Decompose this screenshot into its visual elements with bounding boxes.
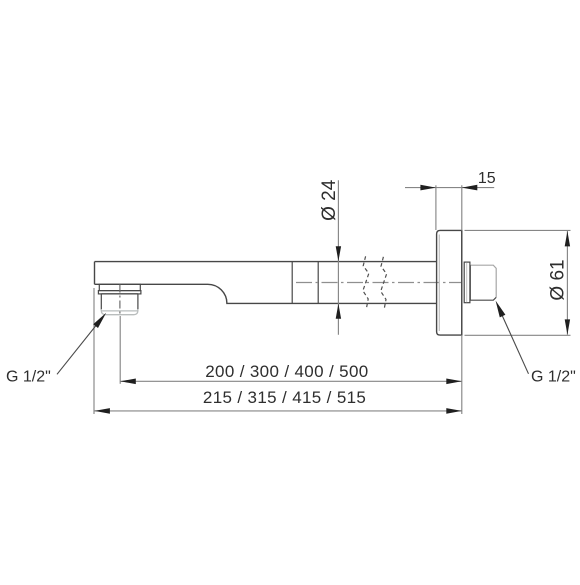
break mark 1 xyxy=(363,256,369,309)
break mark 2 xyxy=(381,257,387,310)
wall plane extension line xyxy=(461,185,463,414)
svg-text:G 1/2": G 1/2" xyxy=(531,369,576,386)
dim 200/300/400/500: dimension line xyxy=(120,380,462,382)
svg-text:215 / 315 / 415 / 515: 215 / 315 / 415 / 515 xyxy=(203,388,366,407)
dim 15: right arrow xyxy=(462,185,478,191)
spout body outline xyxy=(95,262,437,304)
leader left arrowhead xyxy=(93,313,106,328)
spout joint line 1 xyxy=(291,262,293,304)
outlet centerline (dash-dot) xyxy=(119,285,121,317)
wall flange xyxy=(437,230,462,335)
svg-text:200 / 300 / 400 / 500: 200 / 300 / 400 / 500 xyxy=(205,362,368,381)
flange inner highlight line xyxy=(438,235,440,332)
dim O24: dimension line xyxy=(337,180,339,334)
dim O61: dimension line xyxy=(566,231,568,335)
flange right edge over wall line xyxy=(461,230,463,335)
pipe centerline horizontal xyxy=(296,282,462,284)
dim 15: extension line left xyxy=(435,185,437,230)
svg-text:15: 15 xyxy=(478,170,496,187)
svg-text:Ø 24: Ø 24 xyxy=(319,179,340,221)
dim 215/315/415/515: extension line left xyxy=(93,288,95,414)
dim 200 right arrow xyxy=(446,379,462,385)
dim 215 left arrow xyxy=(94,408,110,414)
nipple collar xyxy=(464,262,470,303)
leader right G 1/2 xyxy=(502,314,529,374)
outlet collar band A xyxy=(99,284,140,290)
nipple collar inner line xyxy=(466,263,468,303)
leader right arrowhead xyxy=(496,301,506,318)
outlet cylinder gray bottom rim xyxy=(101,309,138,315)
dim O61: extension top xyxy=(465,229,571,231)
nipple body G 1/2 bottom (dark edges) xyxy=(470,265,496,300)
dim O24: bottom arrow xyxy=(336,304,341,319)
svg-text:Ø 61: Ø 61 xyxy=(548,259,569,300)
dim 15: dimension line xyxy=(405,187,494,189)
dim 15: left arrow xyxy=(420,185,436,191)
dim 200 left arrow xyxy=(120,379,136,385)
outlet cylinder sides xyxy=(101,294,138,310)
dim O61: top arrow xyxy=(565,231,570,246)
outlet collar band B xyxy=(98,291,140,294)
nipple body G 1/2 top and right (light edges) xyxy=(470,265,496,297)
extension line from outlet center (200 dim) xyxy=(119,316,121,384)
dim O24: top arrow xyxy=(336,246,341,261)
dim O61: extension bottom xyxy=(465,334,571,336)
dim 215 right arrow xyxy=(446,408,462,414)
svg-text:G 1/2": G 1/2" xyxy=(6,369,51,386)
spout joint line 2 xyxy=(317,262,319,304)
dim 215: dimension line xyxy=(94,410,461,412)
leader left G 1/2 xyxy=(57,323,98,374)
dim O61: bottom arrow xyxy=(565,319,570,334)
